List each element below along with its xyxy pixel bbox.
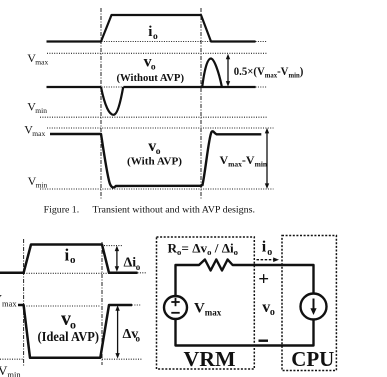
svg-text:i: i: [65, 246, 70, 265]
svg-text:max: max: [32, 129, 45, 138]
svg-text:Δi: Δi: [124, 256, 137, 271]
svg-text:Transient without and with AVP: Transient without and with AVP designs.: [93, 206, 256, 216]
svg-text:o: o: [153, 32, 158, 42]
svg-text:min: min: [36, 181, 48, 190]
svg-text:max: max: [205, 308, 222, 318]
svg-text:i: i: [262, 239, 267, 256]
svg-text:VRM: VRM: [184, 347, 236, 371]
svg-text:(Without AVP): (Without AVP): [117, 72, 185, 84]
svg-text:Figure 1.: Figure 1.: [44, 206, 79, 216]
svg-text:min: min: [35, 106, 47, 115]
svg-text:o: o: [136, 262, 141, 272]
svg-text:(With AVP): (With AVP): [127, 156, 182, 168]
svg-text:o: o: [270, 307, 275, 318]
svg-text:o: o: [70, 254, 76, 266]
svg-text:max: max: [35, 58, 48, 67]
svg-text:V: V: [194, 301, 205, 317]
svg-text:min: min: [7, 370, 21, 377]
svg-text:max: max: [2, 298, 17, 308]
svg-text:o: o: [267, 247, 272, 258]
svg-text:(Ideal AVP): (Ideal AVP): [38, 330, 100, 345]
svg-text:+: +: [258, 269, 269, 290]
svg-text:CPU: CPU: [291, 347, 334, 371]
svg-text:o: o: [136, 334, 141, 344]
svg-text:i: i: [148, 24, 152, 40]
